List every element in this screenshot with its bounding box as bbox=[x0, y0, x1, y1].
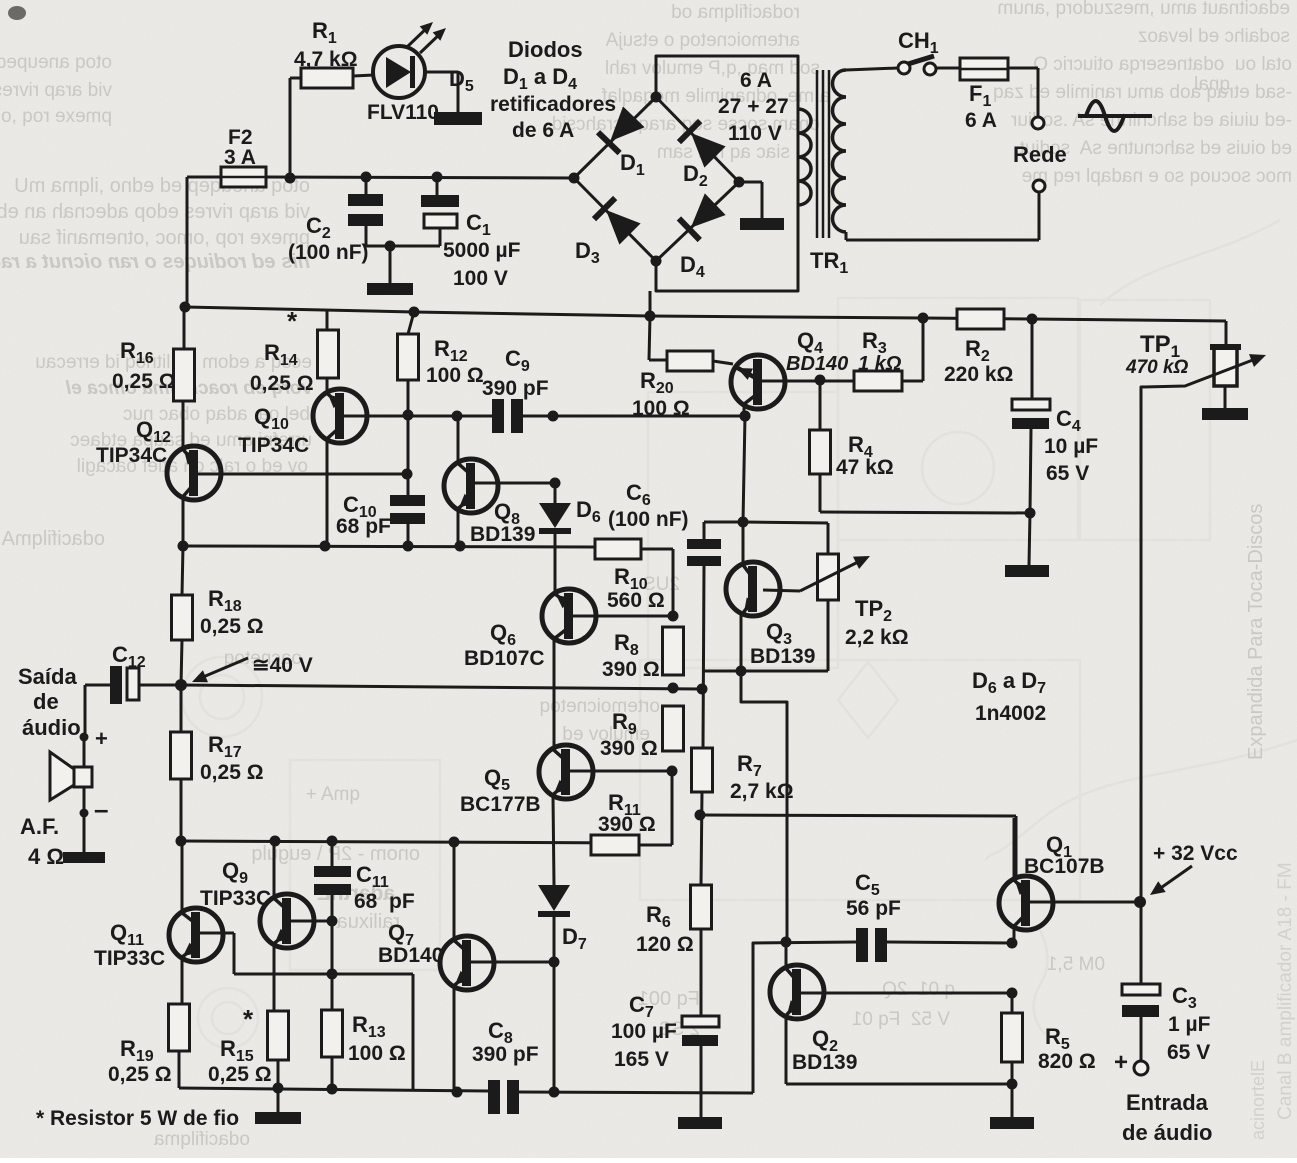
svg-text:Entrada: Entrada bbox=[1126, 1090, 1209, 1115]
svg-text:100 Ω: 100 Ω bbox=[632, 397, 690, 420]
svg-text:(100 nF): (100 nF) bbox=[608, 508, 689, 531]
svg-text:sod maq ,q,P emulov rahl: sod maq ,q,P emulov rahl bbox=[605, 58, 820, 79]
svg-text:a me ,odnanimile megaqlaf: a me ,odnanimile megaqlaf bbox=[601, 86, 830, 107]
svg-text:sodaihc ed levaoz: sodaihc ed levaoz bbox=[1138, 26, 1290, 47]
svg-text:65 V: 65 V bbox=[1167, 1041, 1210, 1064]
svg-text:100 µF: 100 µF bbox=[611, 1020, 677, 1043]
svg-text:0,25 Ω: 0,25 Ω bbox=[250, 372, 314, 395]
svg-text:nis ed rodiuqes o ran oicnut a: nis ed rodiuqes o ran oicnut a raq bbox=[0, 251, 310, 273]
svg-text:Diodos: Diodos bbox=[508, 37, 583, 62]
svg-text:470 kΩ: 470 kΩ bbox=[1125, 357, 1189, 378]
svg-text:TIP33C: TIP33C bbox=[200, 887, 271, 910]
svg-text:moc socuoq so e nadapl req me: moc socuoq so e nadapl req me bbox=[1022, 166, 1292, 187]
svg-text:0,25 Ω: 0,25 Ω bbox=[208, 1063, 272, 1086]
svg-text:0,25 Ω: 0,25 Ω bbox=[200, 615, 264, 638]
svg-text:otal ou odatneserqa otiucric: otal ou odatneserqa otiucric O bbox=[1033, 54, 1292, 75]
svg-text:pmexe rop ,omoc ,otnemanif sau: pmexe rop ,omoc ,otnemanif sau bbox=[19, 227, 310, 249]
svg-text:65 V: 65 V bbox=[1046, 462, 1089, 485]
svg-text:pmexe roq ,omoc ,otnemanif sau: pmexe roq ,omoc ,otnemanif sau bbox=[0, 106, 112, 127]
svg-text:Canal B amplificador A: Canal B amplificador A18 - FM bbox=[1275, 862, 1296, 1120]
svg-text:TIP34C: TIP34C bbox=[238, 434, 309, 457]
svg-text:2,2 kΩ: 2,2 kΩ bbox=[845, 626, 909, 649]
svg-text:BD139: BD139 bbox=[750, 645, 815, 668]
svg-text:qmA +: qmA + bbox=[306, 784, 360, 805]
svg-text:odacifilqma: odacifilqma bbox=[153, 1129, 250, 1150]
svg-text:(100 nF): (100 nF) bbox=[288, 241, 369, 264]
svg-text:6 A: 6 A bbox=[740, 69, 772, 92]
svg-text:vid arap rivres edop adecnah a: vid arap rivres edop adecnah an eb bbox=[0, 201, 310, 223]
svg-text:V 52 Fq 01: V 52 Fq 01 bbox=[852, 1009, 950, 1030]
svg-text:de áudio: de áudio bbox=[1122, 1120, 1212, 1145]
svg-text:D6 a D7: D6 a D7 bbox=[972, 668, 1046, 697]
svg-text:* Resistor 5 W de fio: * Resistor 5 W de fio bbox=[36, 1107, 239, 1130]
svg-text:390 pF: 390 pF bbox=[472, 1043, 539, 1066]
svg-text:100 Ω: 100 Ω bbox=[426, 364, 484, 387]
svg-text:-ed uiuia ed sahcnirtne sA .so: -ed uiuia ed sahcnirtne sA .sodiur bbox=[1010, 110, 1292, 131]
svg-text:de: de bbox=[33, 689, 59, 714]
svg-text:BD107C: BD107C bbox=[464, 647, 545, 670]
svg-text:–: – bbox=[94, 794, 108, 824]
svg-text:ortemoicnetoq: ortemoicnetoq bbox=[540, 696, 660, 717]
svg-text:1n4002: 1n4002 bbox=[975, 702, 1046, 725]
svg-text:0,25 Ω: 0,25 Ω bbox=[112, 370, 176, 393]
svg-text:390 Ω: 390 Ω bbox=[602, 658, 660, 681]
svg-text:165 V: 165 V bbox=[614, 1048, 669, 1071]
svg-text:56 pF: 56 pF bbox=[846, 897, 901, 920]
svg-text:+: + bbox=[95, 726, 108, 751]
svg-text:TIP34C: TIP34C bbox=[96, 444, 167, 467]
svg-text:100 V: 100 V bbox=[453, 267, 508, 290]
svg-text:q 01 2Q: q 01 2Q bbox=[882, 979, 955, 1000]
svg-text:BD139: BD139 bbox=[792, 1051, 857, 1074]
svg-text:BD139: BD139 bbox=[470, 523, 535, 546]
svg-text:Rede: Rede bbox=[1013, 142, 1067, 167]
svg-text:6 A: 6 A bbox=[965, 109, 997, 132]
svg-text:FLV110: FLV110 bbox=[367, 101, 439, 124]
svg-text:gnal: gnal bbox=[1194, 74, 1230, 95]
svg-text:de 6 A: de 6 A bbox=[512, 119, 574, 142]
svg-text:100 Ω: 100 Ω bbox=[348, 1042, 406, 1065]
svg-text:4,7 kΩ: 4,7 kΩ bbox=[294, 48, 358, 71]
svg-text:otoq aneupeq ed edno ,tilqma m: otoq aneupeq ed edno ,tilqma mU bbox=[0, 52, 112, 73]
svg-text:820 Ω: 820 Ω bbox=[1038, 1050, 1096, 1073]
svg-text:retificadores: retificadores bbox=[490, 93, 616, 116]
svg-text:1 µF: 1 µF bbox=[1168, 1013, 1211, 1036]
svg-text:110 V: 110 V bbox=[728, 122, 782, 145]
svg-text:68 pF: 68 pF bbox=[354, 890, 415, 913]
svg-text:vid arap rivres adoq ,adecnah: vid arap rivres adoq ,adecnah an eb bbox=[0, 80, 112, 101]
svg-text:1 kΩ: 1 kΩ bbox=[858, 353, 902, 375]
svg-text:áudio: áudio bbox=[22, 715, 81, 740]
svg-text:+ 32 Vcc: + 32 Vcc bbox=[1153, 842, 1238, 865]
svg-text:27 + 27: 27 + 27 bbox=[718, 95, 789, 118]
svg-text:siac aq mu sam: siac aq mu sam bbox=[657, 142, 790, 163]
svg-text:220 kΩ: 220 kΩ bbox=[944, 363, 1013, 386]
svg-text:3 A: 3 A bbox=[224, 146, 256, 169]
svg-text:47 kΩ: 47 kΩ bbox=[836, 456, 894, 479]
svg-text:Expandida Para Toca-Discos: Expandida Para Toca-Discos bbox=[1245, 504, 1267, 760]
svg-text:odacifilqmA: odacifilqmA bbox=[1, 528, 105, 550]
svg-text:A.F.: A.F. bbox=[20, 814, 59, 839]
svg-text:2,7 kΩ: 2,7 kΩ bbox=[730, 780, 794, 803]
svg-text:BC107B: BC107B bbox=[1024, 855, 1105, 878]
svg-text:68 pF: 68 pF bbox=[336, 515, 391, 538]
svg-text:Saída: Saída bbox=[18, 664, 77, 689]
svg-text:390 Ω: 390 Ω bbox=[600, 737, 658, 760]
svg-text:BD140: BD140 bbox=[786, 353, 848, 375]
svg-text:0,25 Ω: 0,25 Ω bbox=[200, 761, 264, 784]
svg-text:artemoicnetoq o etsujA: artemoicnetoq o etsujA bbox=[605, 30, 800, 51]
svg-text:D1 a D4: D1 a D4 bbox=[503, 64, 577, 93]
svg-text:390 pF: 390 pF bbox=[482, 377, 549, 400]
svg-text:10 µF: 10 µF bbox=[1044, 435, 1098, 458]
svg-text:560 Ω: 560 Ω bbox=[607, 589, 665, 612]
svg-text:120 Ω: 120 Ω bbox=[636, 933, 694, 956]
svg-text:+: + bbox=[1114, 1049, 1128, 1076]
svg-text:0M 5,1: 0M 5,1 bbox=[1047, 954, 1105, 975]
svg-text:5000 µF: 5000 µF bbox=[443, 239, 521, 262]
svg-text:4 Ω: 4 Ω bbox=[28, 844, 64, 869]
svg-text:BD140: BD140 bbox=[378, 944, 443, 967]
svg-text:0,25 Ω: 0,25 Ω bbox=[108, 1063, 172, 1086]
svg-text:acinortelE: acinortelE bbox=[1248, 1060, 1268, 1140]
svg-text:BC177B: BC177B bbox=[460, 793, 541, 816]
svg-text:≅40 V: ≅40 V bbox=[252, 654, 313, 677]
svg-text:*: * bbox=[287, 306, 298, 336]
svg-text:390 Ω: 390 Ω bbox=[598, 813, 656, 836]
svg-text:onom - 2P \ eugulq: onom - 2P \ eugulq bbox=[251, 843, 420, 865]
svg-text:*: * bbox=[243, 1004, 254, 1034]
svg-text:rodacifilqma od: rodacifilqma od bbox=[671, 2, 800, 23]
svg-text:edacitnaut amu ,meszudorq ,anu: edacitnaut amu ,meszudorq ,anum bbox=[997, 0, 1290, 19]
svg-text:TIP33C: TIP33C bbox=[94, 947, 165, 970]
